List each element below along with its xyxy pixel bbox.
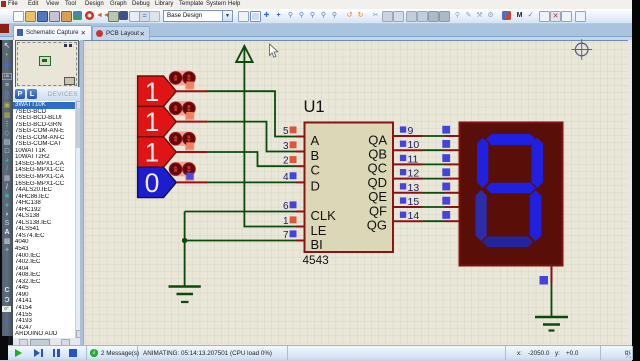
- wire BI branch: [185, 240, 296, 242]
- pin numbers right: [408, 125, 420, 222]
- svg-text:BI: BI: [311, 237, 323, 252]
- display pin stubs: [445, 136, 460, 221]
- display ground pin stub: [551, 266, 553, 284]
- segment F (lit): [478, 139, 488, 188]
- mouse cursor: [270, 44, 278, 57]
- toolbar: [0, 9, 632, 24]
- wire input D4 to pin D: [206, 181, 296, 183]
- svg-text:1: 1: [283, 216, 289, 227]
- segment C (lit): [530, 191, 541, 241]
- origin marker: [572, 39, 593, 60]
- overview window: [15, 40, 79, 88]
- svg-text:10: 10: [408, 139, 420, 151]
- pin labels left: [311, 133, 337, 252]
- pin stub B: [296, 151, 305, 153]
- svg-text:13: 13: [408, 182, 420, 194]
- svg-text:QE: QE: [368, 189, 387, 204]
- svg-text:2: 2: [283, 156, 289, 167]
- pin stub CLK: [296, 211, 305, 213]
- wire ground vertical with CLK branch: [185, 212, 296, 286]
- wire input D2 to pin B: [206, 122, 296, 152]
- svg-text:1: 1: [145, 138, 160, 168]
- pin stub LE: [296, 226, 305, 228]
- logic square display pin: [540, 276, 549, 285]
- green part in overview: [39, 56, 51, 66]
- svg-text:3: 3: [283, 141, 289, 152]
- svg-text:7: 7: [283, 230, 289, 241]
- svg-text:4: 4: [283, 172, 289, 183]
- splitter: [80, 40, 83, 346]
- IC U1 4543 body: [303, 98, 394, 267]
- wire input D3 to pin C: [206, 152, 296, 166]
- svg-text:9: 9: [408, 125, 414, 137]
- wire power vertical to LE: [244, 48, 296, 227]
- pin stub C: [296, 165, 305, 167]
- pin stub BI: [296, 240, 305, 242]
- svg-text:5: 5: [283, 126, 289, 137]
- svg-text:15: 15: [408, 196, 420, 208]
- P L DEVICES header: [13, 87, 80, 101]
- svg-text:C: C: [311, 163, 320, 178]
- svg-text:0: 0: [145, 168, 160, 198]
- svg-text:D: D: [311, 179, 320, 194]
- 7-segment display body: [460, 123, 563, 266]
- toggle buttons input 4: [169, 162, 197, 181]
- svg-text:1: 1: [145, 107, 160, 137]
- segment B (lit): [532, 139, 543, 188]
- pin stub D: [296, 181, 305, 183]
- bottom-left black corner: [0, 336, 8, 360]
- menu bar: [0, 0, 632, 9]
- wire display to ground: [551, 283, 553, 316]
- logic state input 1 (A): [138, 76, 207, 107]
- pin stub A: [296, 136, 305, 138]
- devices list: [13, 101, 75, 339]
- logic squares left pins: [290, 126, 297, 237]
- right thin strip: [628, 40, 632, 346]
- svg-text:U1: U1: [304, 98, 325, 116]
- segment E (off): [476, 191, 486, 241]
- toggle buttons input 2: [169, 101, 197, 120]
- status bar: [0, 345, 632, 361]
- power symbol VCC arrow: [236, 46, 252, 62]
- svg-text:CLK: CLK: [311, 208, 337, 223]
- combo box: [163, 10, 233, 22]
- segment D (off): [483, 237, 533, 247]
- segment A (lit): [487, 135, 536, 145]
- output pin stubs right QA-QG: [393, 136, 423, 221]
- svg-text:QB: QB: [368, 147, 387, 162]
- svg-text:4543: 4543: [303, 253, 330, 267]
- ground symbol left: [169, 287, 201, 303]
- left pane: [13, 40, 80, 346]
- logic squares right small: [400, 126, 406, 218]
- svg-text:QG: QG: [367, 218, 387, 233]
- svg-text:QF: QF: [369, 203, 387, 218]
- svg-text:B: B: [311, 148, 320, 163]
- v scrollbar: [75, 101, 81, 338]
- svg-text:LE: LE: [311, 223, 327, 238]
- black right column: [632, 0, 640, 360]
- left tool strip: [0, 40, 13, 360]
- junction dot: [182, 238, 187, 243]
- svg-text:11: 11: [408, 153, 419, 165]
- pin numbers left: [283, 126, 289, 241]
- svg-text:12: 12: [408, 168, 420, 180]
- svg-text:A: A: [311, 133, 320, 148]
- toggle buttons input 1: [169, 71, 197, 90]
- ground symbol right: [535, 317, 568, 331]
- wire input D1 to pin A: [206, 91, 296, 136]
- toggle buttons input 3: [169, 131, 197, 150]
- logic state input 3 (C): [138, 137, 207, 168]
- svg-text:QC: QC: [368, 161, 388, 176]
- h scrollbar: [13, 338, 80, 346]
- logic state input 2 (B): [138, 106, 207, 137]
- svg-text:14: 14: [408, 210, 420, 222]
- logic squares right large: [442, 126, 450, 219]
- svg-text:1: 1: [145, 77, 160, 107]
- output wires green QA-QG: [423, 136, 445, 221]
- canvas: [83, 40, 629, 346]
- segment G (lit): [487, 183, 536, 193]
- logic state input 4 (D) value 0: [138, 167, 207, 198]
- pin labels right: [367, 132, 388, 232]
- svg-text:QA: QA: [368, 132, 387, 147]
- svg-text:QD: QD: [368, 175, 388, 190]
- tab row: [0, 24, 632, 40]
- svg-text:6: 6: [283, 201, 289, 212]
